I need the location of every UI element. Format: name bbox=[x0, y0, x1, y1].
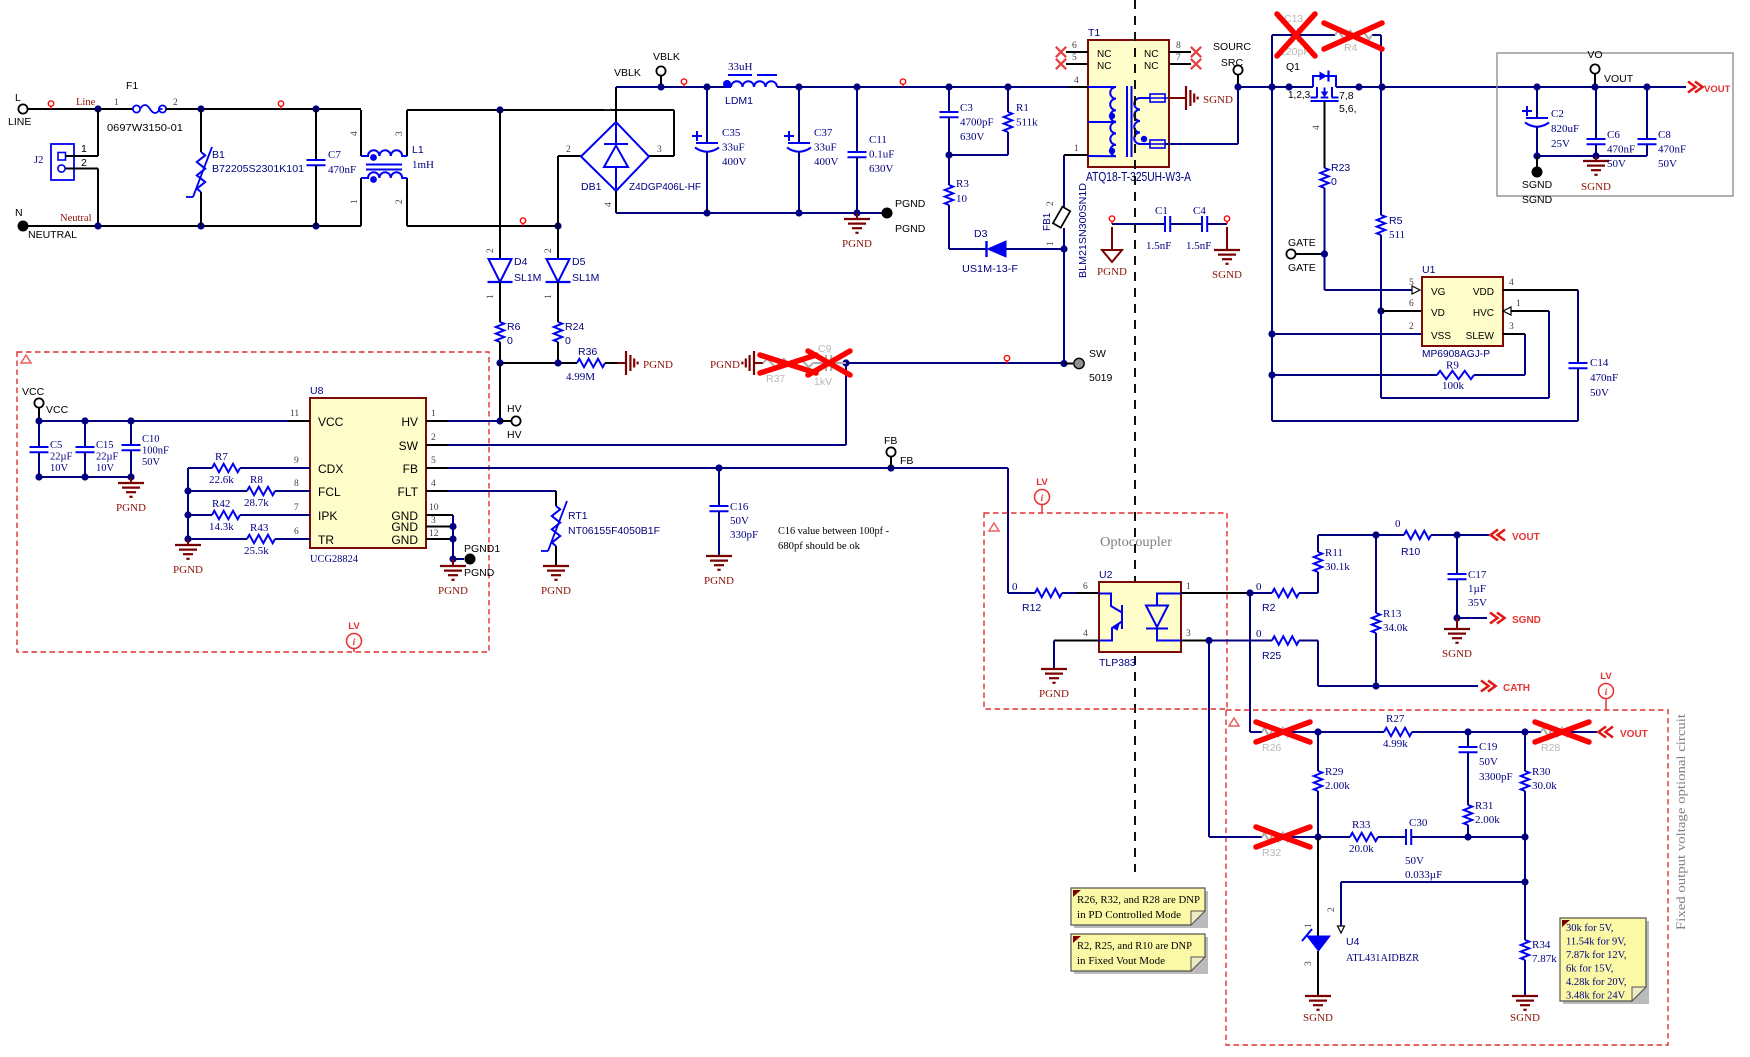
svg-text:14.3k: 14.3k bbox=[209, 521, 234, 533]
svg-text:4700pF: 4700pF bbox=[960, 117, 994, 129]
resistor R36 4.99M bbox=[577, 359, 605, 367]
svg-text:R31: R31 bbox=[1475, 800, 1493, 812]
ferrite bead FB1 BLM21SN300SN1D bbox=[1063, 155, 1065, 207]
svg-text:GATE: GATE bbox=[1288, 237, 1316, 249]
svg-text:4: 4 bbox=[1509, 278, 1514, 288]
connector J2 bbox=[51, 144, 74, 180]
svg-text:33uH: 33uH bbox=[728, 61, 753, 73]
svg-text:50V: 50V bbox=[730, 515, 749, 527]
svg-text:470nF: 470nF bbox=[1590, 372, 1618, 384]
wire U2 pin3 to R32 line bbox=[1208, 641, 1210, 838]
svg-text:HV: HV bbox=[507, 403, 522, 415]
svg-text:470nF: 470nF bbox=[328, 164, 356, 176]
svg-text:1: 1 bbox=[1046, 241, 1056, 246]
svg-text:LDM1: LDM1 bbox=[725, 95, 753, 107]
svg-text:VBLK: VBLK bbox=[614, 67, 641, 79]
pin 4 FLT of U8 bbox=[426, 490, 448, 492]
wire VBLK rail bbox=[616, 86, 731, 88]
svg-text:1: 1 bbox=[350, 199, 360, 204]
svg-text:35V: 35V bbox=[1468, 597, 1487, 609]
resistor R13 34.0k bbox=[1375, 535, 1377, 613]
svg-text:C5: C5 bbox=[50, 440, 62, 451]
svg-text:1: 1 bbox=[114, 98, 119, 108]
svg-text:30.1k: 30.1k bbox=[1325, 561, 1350, 573]
svg-text:R4: R4 bbox=[1344, 42, 1358, 54]
svg-text:50V: 50V bbox=[1658, 158, 1677, 170]
svg-text:VBLK: VBLK bbox=[653, 51, 680, 63]
svg-text:2: 2 bbox=[395, 199, 405, 204]
svg-text:3: 3 bbox=[1509, 322, 1514, 332]
svg-text:PGND: PGND bbox=[1039, 688, 1069, 700]
resistor R24 0 bbox=[554, 322, 562, 342]
resistor R25 0 bbox=[1205, 637, 1212, 644]
wire HVC to VD rail bbox=[1380, 311, 1382, 398]
svg-text:GND: GND bbox=[391, 520, 418, 534]
svg-text:PGND: PGND bbox=[438, 585, 468, 597]
svg-text:470nF: 470nF bbox=[1658, 144, 1686, 156]
wire PGND dc return rail bbox=[616, 212, 882, 214]
svg-text:6k for 15V,: 6k for 15V, bbox=[1566, 964, 1613, 975]
note R26 R32 R28 DNP bbox=[1074, 891, 1208, 928]
svg-text:PGND: PGND bbox=[464, 567, 495, 579]
wire Neutral net to L1 pin1 bbox=[28, 225, 361, 227]
resistor R27 4.99k bbox=[1318, 731, 1384, 733]
resistor R4 DNP bbox=[1335, 31, 1372, 39]
node SOURC SRC terminal bbox=[1233, 65, 1242, 74]
svg-text:FCL: FCL bbox=[318, 485, 341, 499]
svg-text:TR: TR bbox=[318, 533, 334, 547]
thermistor RT1 NT06155F4050B1F bbox=[552, 506, 560, 546]
svg-text:3: 3 bbox=[431, 516, 436, 526]
svg-text:CDX: CDX bbox=[318, 462, 343, 476]
resistor R29 2.00k bbox=[1317, 732, 1319, 771]
U2 led bbox=[1146, 594, 1181, 641]
svg-text:4: 4 bbox=[350, 131, 360, 136]
svg-text:PGND: PGND bbox=[895, 223, 926, 235]
svg-text:SW: SW bbox=[399, 439, 419, 453]
svg-text:5: 5 bbox=[1072, 53, 1077, 63]
node HV terminal bbox=[496, 417, 503, 424]
capacitor C13 220pF DNP bbox=[1292, 28, 1294, 42]
svg-text:VD: VD bbox=[1431, 308, 1445, 319]
svg-text:2: 2 bbox=[431, 433, 436, 443]
svg-text:MP6908AGJ-P: MP6908AGJ-P bbox=[1422, 348, 1490, 360]
wire J2 pin1 to Line bbox=[66, 155, 99, 157]
svg-text:C1: C1 bbox=[1155, 205, 1168, 217]
resistor R33 20.0k bbox=[1318, 836, 1350, 838]
svg-text:0: 0 bbox=[1331, 176, 1337, 188]
svg-text:GND: GND bbox=[391, 533, 418, 547]
T1 core bbox=[1127, 86, 1132, 157]
capacitor C10 100nF 50V bbox=[130, 421, 132, 445]
svg-text:R1: R1 bbox=[1016, 102, 1029, 114]
svg-text:1: 1 bbox=[544, 294, 554, 299]
svg-text:511: 511 bbox=[1389, 229, 1405, 241]
svg-text:3300pF: 3300pF bbox=[1479, 771, 1513, 783]
wire Line net from LINE terminal to F1 bbox=[28, 108, 133, 110]
svg-text:0: 0 bbox=[507, 335, 513, 347]
svg-text:SW: SW bbox=[1089, 348, 1106, 360]
node VO terminal bbox=[1590, 64, 1599, 73]
svg-text:1,2,3: 1,2,3 bbox=[1288, 90, 1311, 101]
svg-text:Optocoupler: Optocoupler bbox=[1100, 534, 1173, 549]
svg-text:HV: HV bbox=[507, 429, 522, 441]
svg-text:SOURC: SOURC bbox=[1213, 41, 1251, 53]
svg-text:34.0k: 34.0k bbox=[1383, 622, 1408, 634]
node N / NEUTRAL input terminal bbox=[18, 221, 29, 232]
resistor R5 511 bbox=[1380, 87, 1382, 215]
ground PGND below C11 bbox=[856, 213, 858, 219]
svg-text:1µF: 1µF bbox=[1468, 583, 1486, 595]
svg-text:22.6k: 22.6k bbox=[209, 474, 234, 486]
svg-text:0.033µF: 0.033µF bbox=[1405, 869, 1442, 881]
ground PGND sideways at R36 bbox=[617, 362, 626, 364]
net label SGND at C17 bbox=[1453, 614, 1460, 621]
capacitor C8 470nF 50V bbox=[1646, 87, 1648, 139]
svg-text:VOUT: VOUT bbox=[1512, 532, 1540, 543]
resistor R8 28.7k bbox=[188, 490, 247, 492]
svg-text:T1: T1 bbox=[1088, 27, 1100, 39]
svg-text:4: 4 bbox=[1312, 125, 1322, 130]
svg-text:NT06155F4050B1F: NT06155F4050B1F bbox=[568, 525, 660, 537]
svg-text:HVC: HVC bbox=[1473, 308, 1494, 319]
svg-text:VOUT: VOUT bbox=[1704, 84, 1731, 95]
wire Q1 gate chain bbox=[1324, 101, 1326, 168]
pin 6 NC of T1 bbox=[1066, 51, 1088, 53]
svg-text:1: 1 bbox=[1516, 299, 1521, 309]
ground SGND below R34 bbox=[1512, 996, 1538, 1010]
svg-text:Neutral: Neutral bbox=[60, 213, 92, 224]
svg-text:20.0k: 20.0k bbox=[1349, 843, 1374, 855]
resistor R2 0 bbox=[1250, 592, 1272, 594]
svg-text:6: 6 bbox=[1083, 582, 1088, 592]
svg-text:U8: U8 bbox=[310, 385, 324, 397]
svg-text:NEUTRAL: NEUTRAL bbox=[28, 229, 77, 241]
svg-text:33uF: 33uF bbox=[722, 142, 745, 154]
svg-text:50V: 50V bbox=[142, 457, 161, 468]
svg-text:TLP383: TLP383 bbox=[1099, 657, 1136, 669]
svg-text:C9: C9 bbox=[818, 343, 832, 355]
pin 11 VCC of U8 bbox=[288, 420, 310, 422]
svg-text:FLT: FLT bbox=[398, 485, 419, 499]
ground SGND below C17 bbox=[1456, 618, 1458, 629]
svg-text:D3: D3 bbox=[974, 228, 988, 240]
svg-text:R33: R33 bbox=[1352, 819, 1371, 831]
capacitor C14 470nF 50V bbox=[1577, 290, 1579, 363]
pin 4 of U2 bbox=[1054, 640, 1099, 642]
svg-text:R32: R32 bbox=[1262, 847, 1281, 859]
svg-text:680pf should be ok: 680pf should be ok bbox=[778, 541, 860, 552]
resistor R26 DNP bbox=[1250, 731, 1262, 733]
svg-text:VG: VG bbox=[1431, 287, 1446, 298]
svg-text:10V: 10V bbox=[50, 463, 69, 474]
node PGND1 terminal bbox=[465, 554, 476, 565]
svg-text:R2: R2 bbox=[1262, 602, 1276, 614]
svg-text:R36: R36 bbox=[578, 346, 597, 358]
wire R11 top to R10/VOUT bbox=[1318, 534, 1376, 536]
svg-text:400V: 400V bbox=[814, 156, 839, 168]
svg-text:100nF: 100nF bbox=[142, 446, 169, 457]
svg-text:3: 3 bbox=[657, 145, 662, 155]
svg-text:2: 2 bbox=[81, 157, 87, 169]
svg-text:2: 2 bbox=[566, 145, 571, 155]
pin 8 NC of T1 bbox=[1169, 51, 1191, 53]
svg-text:7.87k for 12V,: 7.87k for 12V, bbox=[1566, 950, 1626, 961]
svg-text:SGND: SGND bbox=[1442, 648, 1472, 660]
svg-text:PGND: PGND bbox=[1097, 266, 1127, 278]
resistor R31 2.00k bbox=[1464, 805, 1472, 825]
resistor R9 100k bbox=[1272, 374, 1437, 376]
capacitor C1 1.5nF bbox=[1109, 216, 1114, 224]
ground PGND below C16 bbox=[706, 556, 732, 570]
node SGND terminal bbox=[1536, 156, 1538, 167]
svg-text:SGND: SGND bbox=[1581, 181, 1611, 193]
node PGND terminal bbox=[882, 208, 893, 219]
svg-text:VSS: VSS bbox=[1431, 331, 1451, 342]
svg-text:4: 4 bbox=[604, 202, 614, 207]
svg-text:R37: R37 bbox=[766, 373, 785, 385]
wire VD net bbox=[1377, 307, 1384, 314]
net label CATH bbox=[1481, 681, 1496, 692]
svg-text:RT1: RT1 bbox=[568, 510, 588, 522]
wire HV startup node bbox=[500, 362, 577, 364]
svg-text:3.48k for 24V: 3.48k for 24V bbox=[1566, 991, 1626, 1002]
pin 4 of T1 primary bbox=[1069, 86, 1088, 88]
svg-text:400V: 400V bbox=[722, 156, 747, 168]
svg-text:R34: R34 bbox=[1532, 939, 1551, 951]
svg-text:PGND1: PGND1 bbox=[464, 543, 500, 555]
svg-text:L: L bbox=[15, 92, 21, 104]
svg-text:5019: 5019 bbox=[1089, 372, 1113, 384]
pin 2 SW of U8 bbox=[426, 444, 448, 446]
svg-text:11.54k for 9V,: 11.54k for 9V, bbox=[1566, 937, 1626, 948]
svg-text:10: 10 bbox=[429, 503, 439, 513]
pin 10 GND of U8 bbox=[426, 514, 453, 516]
pin 1 of T1 primary bbox=[1064, 154, 1088, 156]
svg-text:4.99M: 4.99M bbox=[566, 371, 595, 383]
svg-text:i: i bbox=[353, 638, 356, 648]
svg-text:NC: NC bbox=[1144, 49, 1158, 60]
svg-text:PGND: PGND bbox=[895, 198, 926, 210]
T1 primary windings bbox=[1088, 87, 1116, 122]
wire C3/R1 bottom junction bbox=[949, 154, 1008, 156]
ground SGND in output section bbox=[1595, 156, 1597, 161]
wire Line net L1 pin3 to DB1 pin3 bbox=[407, 109, 674, 111]
svg-text:11: 11 bbox=[290, 409, 299, 419]
svg-text:7: 7 bbox=[294, 503, 299, 513]
svg-text:7,8: 7,8 bbox=[1339, 90, 1354, 102]
wire Q1 source to output rail bbox=[1336, 86, 1686, 88]
svg-text:4.99k: 4.99k bbox=[1383, 738, 1408, 750]
wire J2 pin2 to Neutral bbox=[66, 168, 99, 170]
svg-text:R12: R12 bbox=[1022, 602, 1041, 614]
svg-text:LV: LV bbox=[348, 621, 360, 632]
wire CATH net bbox=[1317, 641, 1319, 687]
node SW 5019 bbox=[1064, 363, 1073, 365]
svg-text:330pF: 330pF bbox=[730, 529, 758, 541]
svg-text:7.87k: 7.87k bbox=[1532, 953, 1557, 965]
svg-text:2: 2 bbox=[544, 248, 554, 253]
svg-text:C35: C35 bbox=[722, 127, 741, 139]
ground PGND below U8 bbox=[452, 559, 454, 566]
svg-text:470nF: 470nF bbox=[1607, 144, 1635, 156]
IC U2 TLP383 optocoupler bbox=[1076, 592, 1099, 594]
wire U2 pin1 node bbox=[1246, 589, 1253, 596]
capacitor C7 470nF bbox=[315, 109, 317, 160]
svg-text:6: 6 bbox=[1072, 41, 1077, 51]
svg-text:100k: 100k bbox=[1442, 380, 1465, 392]
svg-text:25.5k: 25.5k bbox=[244, 545, 269, 557]
svg-text:i: i bbox=[1605, 688, 1608, 698]
diode D3 US1M-13-F bbox=[949, 248, 986, 250]
wire R7/R8/R42/R43 common rail bbox=[187, 468, 189, 539]
svg-text:1mH: 1mH bbox=[412, 159, 434, 171]
svg-text:LINE: LINE bbox=[8, 116, 31, 128]
ground PGND below U2 pin4 bbox=[1053, 641, 1055, 670]
pin 3 of U2 bbox=[1181, 640, 1209, 642]
svg-text:C7: C7 bbox=[328, 149, 341, 161]
svg-text:CATH: CATH bbox=[1503, 683, 1530, 694]
wire T1 secondary bottom to SRC bbox=[1165, 143, 1238, 145]
resistor R1 511k bbox=[1007, 87, 1009, 112]
wire GATE to U1 VG bbox=[1324, 254, 1326, 290]
varistor B1 B72205S2301K101 bbox=[200, 109, 202, 152]
pin 1 HVC of U1 bbox=[1503, 310, 1549, 312]
IC U8 UCG28824 bbox=[310, 398, 426, 548]
svg-text:8: 8 bbox=[1176, 41, 1181, 51]
svg-text:5,6,: 5,6, bbox=[1339, 103, 1357, 115]
svg-text:C10: C10 bbox=[142, 434, 160, 445]
svg-text:511k: 511k bbox=[1016, 117, 1038, 129]
svg-text:VCC: VCC bbox=[22, 386, 45, 398]
svg-text:6: 6 bbox=[1409, 299, 1414, 309]
net label VOUT at R28 bbox=[1599, 727, 1614, 738]
svg-text:R26, R32, and R28 are DNP: R26, R32, and R28 are DNP bbox=[1077, 895, 1200, 906]
capacitor C37 33uF 400V bbox=[798, 87, 800, 143]
ground PGND below RT1 bbox=[543, 566, 569, 580]
svg-text:UCG28824: UCG28824 bbox=[310, 553, 358, 565]
transformer T1 ATQ18-T-325UH-W3-A bbox=[1088, 40, 1169, 167]
ground SGND below C4 bbox=[1226, 227, 1228, 250]
svg-text:PGND: PGND bbox=[704, 575, 734, 587]
wire SRC rail to Q1 bbox=[1238, 86, 1313, 88]
resistor R23 0 bbox=[1320, 168, 1328, 188]
resistor R28 DNP bbox=[1541, 728, 1569, 736]
resistor R30 30.0k bbox=[1524, 732, 1526, 771]
svg-text:0.1uF: 0.1uF bbox=[869, 149, 894, 161]
svg-text:J2: J2 bbox=[34, 155, 43, 166]
capacitor C15 22uF 10V bbox=[84, 421, 86, 447]
wire DB1 pin4 to PGND rail bbox=[615, 191, 617, 213]
resistor R42 14.3k bbox=[188, 514, 212, 516]
svg-text:1: 1 bbox=[604, 107, 614, 112]
svg-text:0: 0 bbox=[1256, 581, 1262, 593]
svg-text:R24: R24 bbox=[565, 321, 584, 333]
svg-text:U2: U2 bbox=[1099, 569, 1113, 581]
ground SGND at T1 secondary bbox=[1186, 86, 1198, 110]
svg-text:3: 3 bbox=[395, 131, 405, 136]
svg-text:ATQ18-T-325UH-W3-A: ATQ18-T-325UH-W3-A bbox=[1086, 170, 1192, 184]
resistor R11 30.1k bbox=[1317, 572, 1319, 593]
ground PGND below C10 bbox=[130, 477, 132, 483]
svg-text:Z4DGP406L-HF: Z4DGP406L-HF bbox=[629, 181, 701, 193]
svg-text:2: 2 bbox=[1409, 322, 1414, 332]
svg-text:R8: R8 bbox=[250, 474, 263, 486]
pin 3 SLEW of U1 bbox=[1503, 333, 1525, 335]
svg-text:ATL431AIDBZR: ATL431AIDBZR bbox=[1346, 952, 1420, 964]
shunt regulator U4 ATL431AIDBZR bbox=[1317, 837, 1319, 936]
svg-text:VOUT: VOUT bbox=[1620, 729, 1648, 740]
svg-text:1kV: 1kV bbox=[814, 376, 832, 388]
output section box bbox=[1497, 53, 1733, 196]
svg-text:C15: C15 bbox=[96, 440, 114, 451]
svg-text:PGND: PGND bbox=[116, 502, 146, 514]
svg-text:R27: R27 bbox=[1386, 713, 1405, 725]
svg-text:C2: C2 bbox=[1551, 108, 1564, 120]
svg-text:N: N bbox=[15, 207, 23, 219]
bridge rectifier DB1 Z4DGP406L-HF bbox=[581, 122, 649, 191]
wire snubber branch across Q1 bbox=[1272, 34, 1293, 36]
svg-text:SGND: SGND bbox=[1522, 179, 1553, 191]
wire T1 secondary top to SGND bbox=[1168, 97, 1186, 99]
svg-text:R9: R9 bbox=[1446, 360, 1459, 372]
svg-text:50V: 50V bbox=[1590, 387, 1609, 399]
capacitor C30 0.033uF 50V bbox=[1405, 829, 1407, 845]
svg-text:NC: NC bbox=[1097, 49, 1111, 60]
svg-text:SGND: SGND bbox=[1522, 194, 1553, 206]
capacitor C35 33uF 400V bbox=[706, 87, 708, 143]
svg-text:PGND: PGND bbox=[842, 238, 872, 250]
svg-text:B72205S2301K101: B72205S2301K101 bbox=[212, 163, 304, 175]
svg-text:8: 8 bbox=[294, 479, 299, 489]
pin 4 VDD of U1 bbox=[1503, 289, 1578, 291]
svg-text:C3: C3 bbox=[960, 102, 973, 114]
wire Line net F1 to L1 pin4 bbox=[166, 108, 361, 110]
svg-text:820uF: 820uF bbox=[1551, 123, 1579, 135]
svg-text:R13: R13 bbox=[1383, 608, 1402, 620]
svg-text:C11: C11 bbox=[869, 134, 887, 146]
ground PGND triangle below C1 bbox=[1111, 227, 1113, 250]
svg-text:VDD: VDD bbox=[1473, 287, 1494, 298]
svg-text:1: 1 bbox=[1074, 144, 1079, 154]
pin 5 NC of T1 bbox=[1066, 63, 1088, 65]
svg-text:1.5nF: 1.5nF bbox=[1186, 240, 1211, 252]
svg-text:1: 1 bbox=[81, 143, 87, 155]
svg-text:NC: NC bbox=[1144, 61, 1158, 72]
svg-text:FB: FB bbox=[884, 435, 897, 447]
svg-text:2.00k: 2.00k bbox=[1325, 780, 1350, 792]
capacitor C5 22uF 10V bbox=[38, 421, 40, 447]
svg-text:US1M-13-F: US1M-13-F bbox=[962, 263, 1018, 275]
note R34 values for output voltages bbox=[1563, 921, 1649, 1004]
svg-text:FB1: FB1 bbox=[1042, 212, 1053, 231]
capacitor C4 1.5nF bbox=[1170, 223, 1202, 225]
svg-text:R7: R7 bbox=[215, 451, 228, 463]
svg-text:R5: R5 bbox=[1389, 215, 1403, 227]
svg-text:PGND: PGND bbox=[541, 585, 571, 597]
svg-text:0: 0 bbox=[1256, 628, 1262, 640]
svg-text:SL1M: SL1M bbox=[572, 272, 599, 284]
wire Neutral net L1 pin2 to D5 and DB1 pin2 bbox=[407, 225, 558, 227]
svg-text:PGND: PGND bbox=[710, 359, 740, 371]
node FB terminal bbox=[886, 447, 895, 456]
svg-text:U1: U1 bbox=[1422, 264, 1436, 276]
svg-text:C37: C37 bbox=[814, 127, 833, 139]
wire DB1 pin1 to VBLK rail bbox=[615, 87, 617, 122]
node GATE terminal bbox=[1286, 249, 1295, 258]
svg-text:Line: Line bbox=[76, 97, 96, 108]
wire R30 to R34 bbox=[1524, 837, 1526, 940]
